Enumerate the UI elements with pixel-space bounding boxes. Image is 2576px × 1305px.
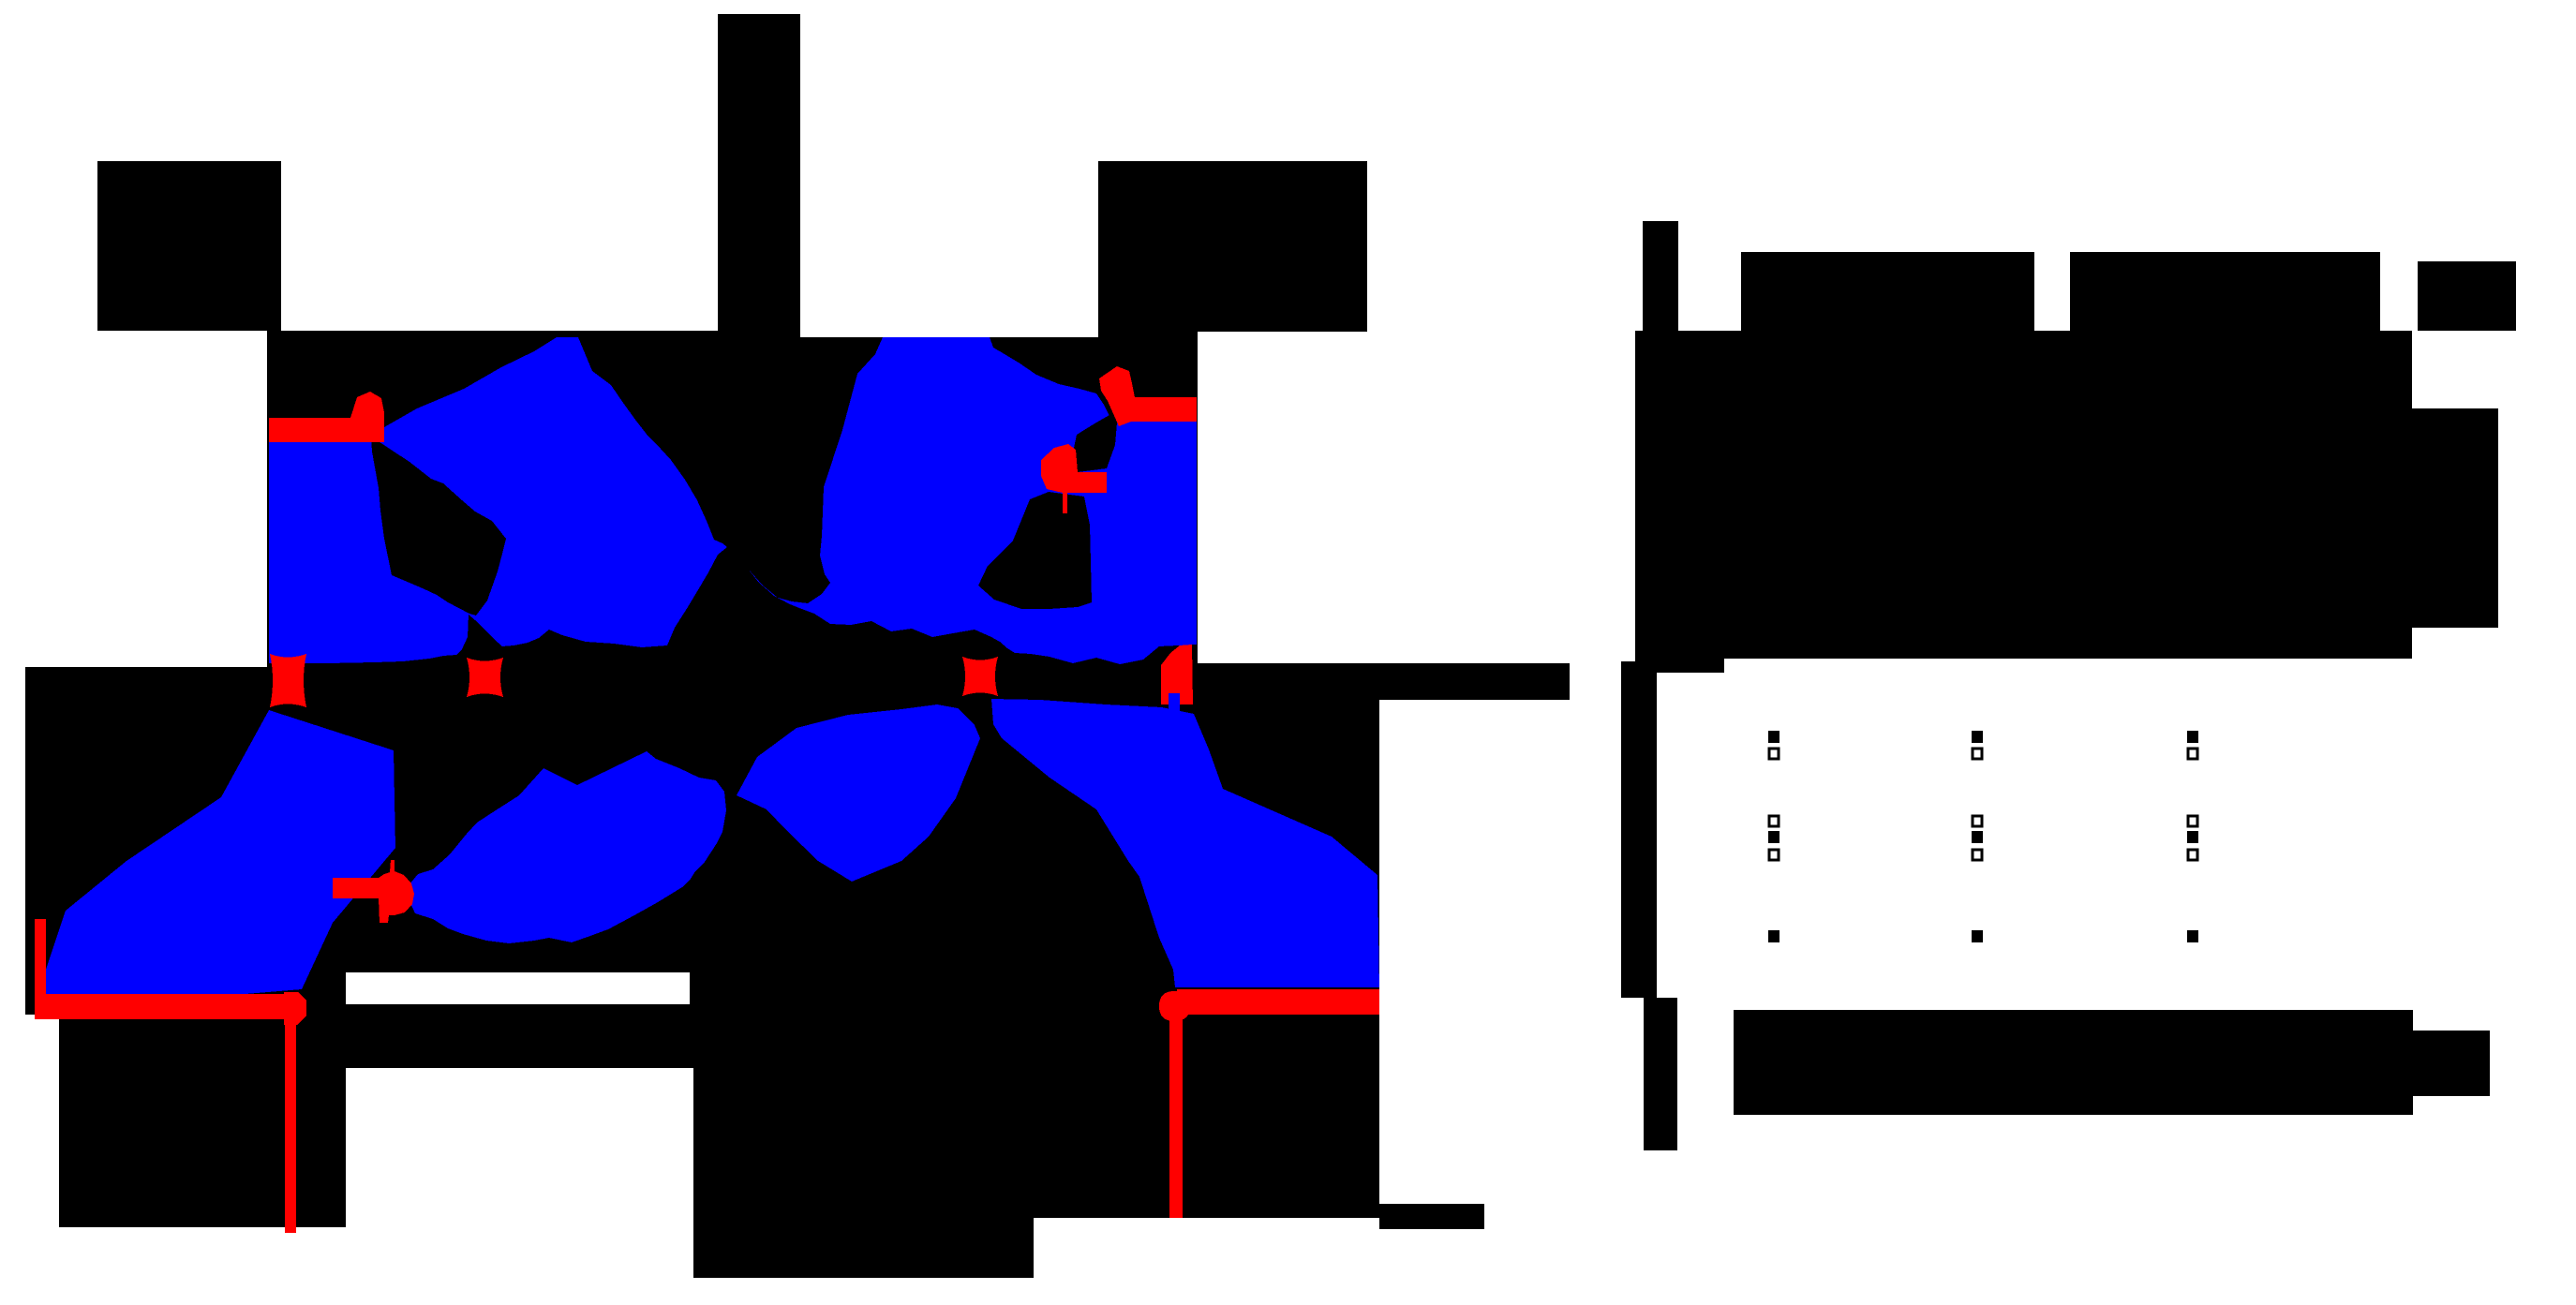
red frame bottom-left hbar bbox=[35, 994, 286, 1019]
black right ring pocket upper bbox=[1074, 415, 1117, 472]
text paragraph right bump bbox=[2412, 408, 2498, 628]
blue bottom wedge 2 bbox=[404, 751, 726, 943]
text paragraph bottom-left step bbox=[1635, 656, 1724, 673]
red bottom-right dot bbox=[1159, 991, 1190, 1021]
red O top-right bar bbox=[1099, 366, 1197, 426]
red bottom-right vline bbox=[1169, 1015, 1183, 1218]
text vertical bar3 bbox=[1644, 998, 1677, 1150]
red bottom-right hbar bbox=[1177, 989, 1379, 1015]
text vertical bar2 bbox=[1621, 661, 1657, 998]
small dots column 1 bbox=[1768, 731, 2198, 942]
text line1 block B bbox=[2070, 252, 2380, 331]
blue right ring mass bbox=[748, 337, 1197, 664]
red X node left bbox=[467, 658, 503, 697]
red O middle piece bbox=[1041, 444, 1107, 513]
molecule black bottom extension bbox=[693, 1218, 1034, 1278]
small hollow dots bbox=[1769, 749, 2197, 860]
blue bottom-right wedge bbox=[991, 699, 1379, 987]
text bar1 ascender bbox=[1643, 221, 1678, 331]
text bottom line bar bbox=[1734, 1010, 2413, 1115]
black right ring pocket lower bbox=[978, 492, 1092, 609]
red frame corner blob bbox=[284, 992, 306, 1025]
molecule black base middle bbox=[25, 667, 1198, 972]
red node left-mid blob bbox=[270, 654, 306, 707]
wire top bar bbox=[718, 14, 800, 334]
node CH3 top-right black block bbox=[1098, 161, 1367, 332]
red arch right bbox=[1169, 693, 1180, 712]
molecule black base upper bbox=[267, 331, 1198, 667]
blue left ring mass bbox=[269, 337, 727, 663]
molecule black right column bbox=[1183, 700, 1379, 1218]
molecule black left lower strip bbox=[25, 972, 346, 1015]
molecule black foot bbox=[1379, 1204, 1484, 1229]
red vertical line bottom-left bbox=[285, 1023, 296, 1233]
blue bottom-left wedge bbox=[46, 710, 395, 995]
blue bottom wedge 3 bbox=[737, 704, 980, 882]
black left ring pocket bbox=[371, 437, 506, 615]
red X node right bbox=[962, 657, 998, 696]
wire right horizontal band bbox=[1193, 663, 1570, 700]
text line1 block C bbox=[2418, 261, 2516, 331]
text bottom line bump bbox=[2413, 1031, 2490, 1096]
molecule black center-bottom bbox=[690, 972, 1198, 1068]
molecule black bottom-left rect bbox=[59, 1015, 346, 1227]
molecule black center-bottom2 bbox=[693, 1068, 1198, 1218]
text paragraph block bbox=[1635, 331, 2412, 659]
red frame bottom-left vbar bbox=[35, 919, 46, 1002]
red O top-left bar bbox=[269, 392, 384, 442]
text line1 block A bbox=[1741, 252, 2034, 331]
red bottom-middle piece bbox=[333, 860, 414, 923]
node CH3 top-left black block bbox=[97, 161, 281, 331]
molecule black band under white band bbox=[346, 1004, 693, 1068]
